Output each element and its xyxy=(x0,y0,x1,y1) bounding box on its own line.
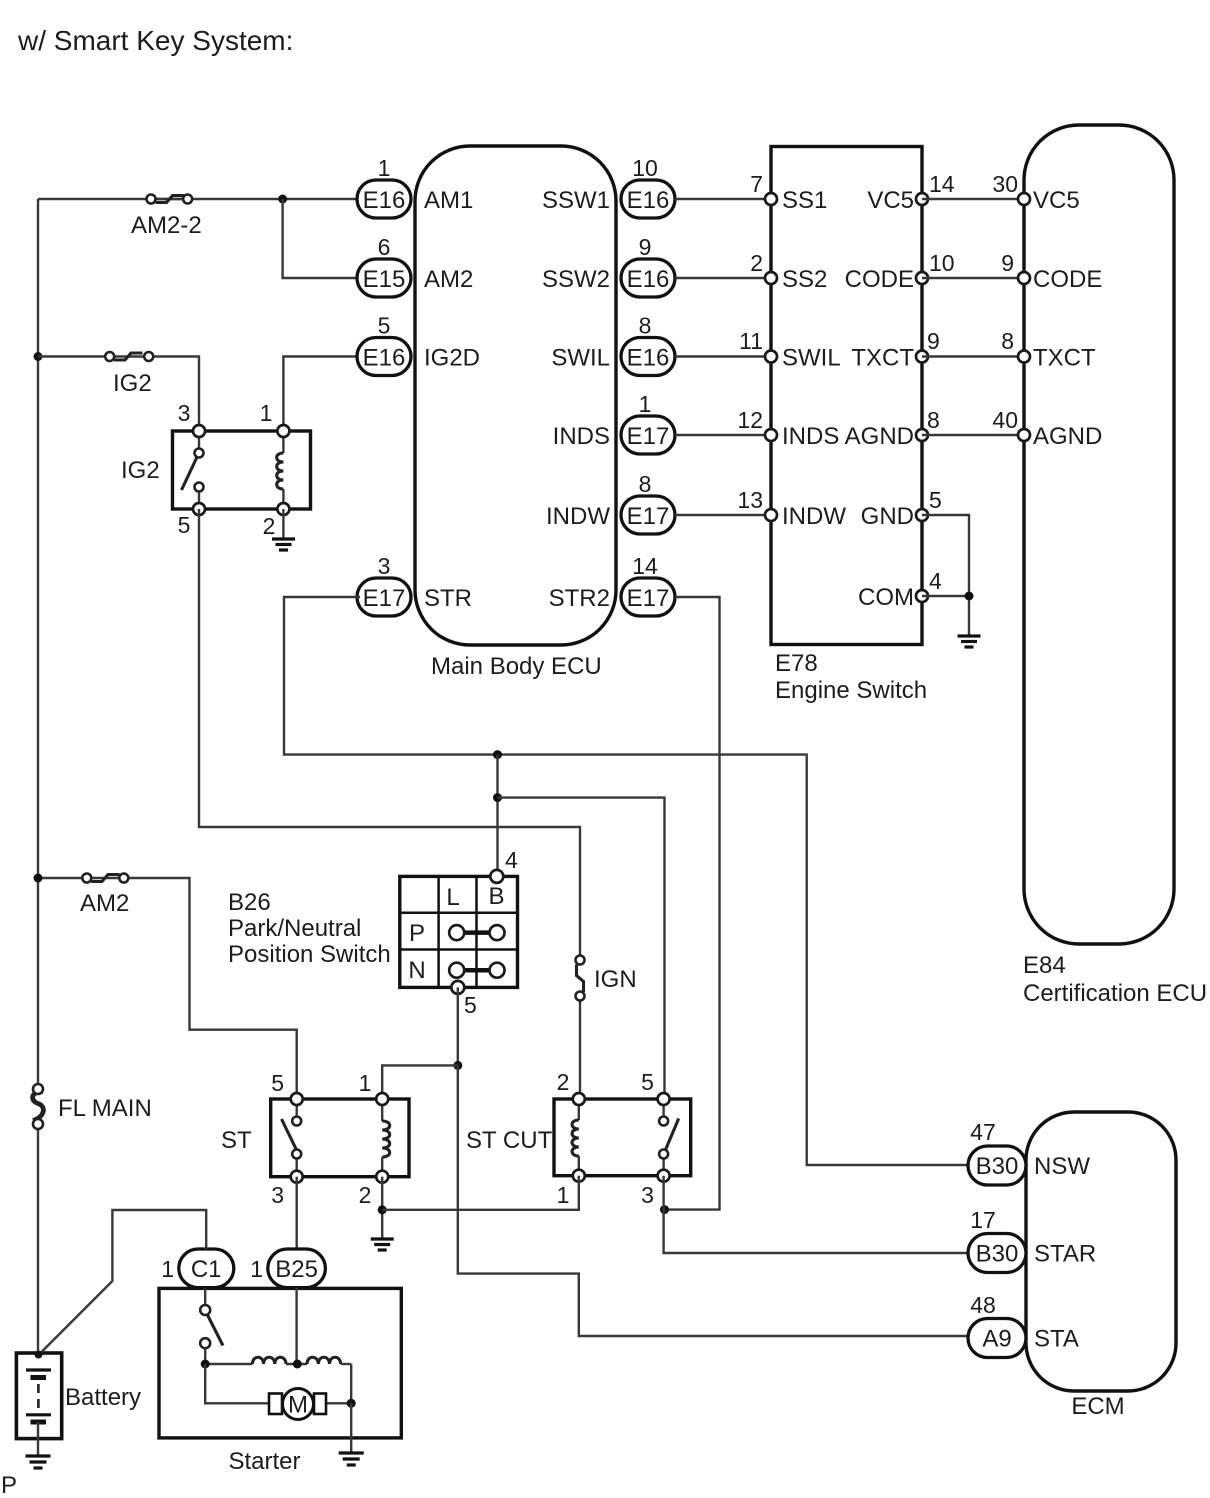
svg-text:5: 5 xyxy=(641,1069,654,1095)
svg-text:2: 2 xyxy=(263,513,276,539)
wire ST CUT pin1 to ground junction xyxy=(382,1176,579,1210)
svg-text:GND: GND xyxy=(861,503,914,530)
svg-text:3: 3 xyxy=(641,1182,654,1208)
wire B26 pin5 junction xyxy=(457,987,459,1065)
wire STR2 to ST CUT pin 3 xyxy=(665,597,720,1210)
svg-text:1: 1 xyxy=(161,1256,174,1282)
svg-text:M: M xyxy=(288,1392,308,1419)
svg-text:FL MAIN: FL MAIN xyxy=(58,1095,152,1122)
connector B30 pin 17 (STAR) xyxy=(968,1207,1096,1273)
fuse IG2 xyxy=(105,352,153,397)
wire INDW to INDW xyxy=(675,514,771,516)
svg-text:14: 14 xyxy=(632,553,658,579)
svg-text:B30: B30 xyxy=(976,1241,1019,1268)
svg-text:9: 9 xyxy=(1001,250,1014,276)
E78 pin 12 INDS xyxy=(737,407,839,450)
node B25/coil junction xyxy=(293,1360,302,1369)
svg-text:48: 48 xyxy=(970,1292,996,1318)
svg-text:5: 5 xyxy=(464,992,477,1018)
E78 pin 7 SS1 xyxy=(750,171,827,214)
svg-text:1: 1 xyxy=(250,1256,263,1282)
svg-text:1: 1 xyxy=(359,1070,372,1096)
svg-text:9: 9 xyxy=(927,328,940,354)
relay IG2 switch xyxy=(182,431,204,509)
wire ST pin3 to starter B25 xyxy=(296,1177,298,1250)
svg-text:E16: E16 xyxy=(627,266,670,293)
svg-text:ST CUT: ST CUT xyxy=(466,1127,553,1154)
ground IG2 relay xyxy=(272,539,295,550)
wire IG2 coil to ground xyxy=(282,509,284,538)
svg-text:TXCT: TXCT xyxy=(1033,345,1096,372)
wire motor right xyxy=(326,1402,351,1404)
wire IG2 fuse feed xyxy=(38,357,199,432)
svg-text:10: 10 xyxy=(929,250,955,276)
svg-text:E17: E17 xyxy=(627,423,670,450)
svg-text:5: 5 xyxy=(929,487,942,513)
svg-text:3: 3 xyxy=(378,553,391,579)
svg-text:INDS: INDS xyxy=(782,423,839,450)
node AM2 fuse tap xyxy=(34,874,43,883)
svg-text:8: 8 xyxy=(927,407,940,433)
svg-text:E17: E17 xyxy=(363,585,406,612)
svg-text:Engine Switch: Engine Switch xyxy=(775,677,927,704)
relay ST CUT coil xyxy=(572,1099,579,1176)
svg-text:Starter: Starter xyxy=(228,1448,300,1475)
svg-text:E15: E15 xyxy=(363,266,406,293)
wire TXCT to E84 xyxy=(922,328,1024,357)
svg-text:E17: E17 xyxy=(627,503,670,530)
ground starter xyxy=(339,1453,364,1465)
svg-text:E16: E16 xyxy=(627,345,670,372)
svg-text:INDW: INDW xyxy=(546,503,610,530)
svg-text:STR2: STR2 xyxy=(549,585,610,612)
svg-text:CODE: CODE xyxy=(845,266,914,293)
E84 pin 30 VC5 xyxy=(1018,187,1080,214)
svg-text:STR: STR xyxy=(424,585,472,612)
svg-text:2: 2 xyxy=(557,1069,570,1095)
wire GND to ground xyxy=(922,515,969,636)
svg-text:COM: COM xyxy=(858,584,914,611)
connector E17 pin 1 (INDS) xyxy=(553,391,675,454)
E78 pin 4 COM xyxy=(858,568,942,611)
svg-text:IG2: IG2 xyxy=(113,370,152,397)
node STR2/ST CUT pin3 junction xyxy=(660,1205,669,1214)
svg-text:Position Switch: Position Switch xyxy=(228,941,391,968)
E78 pin 14 VC5 xyxy=(867,171,954,214)
connector E16 pin 8 (SWIL) xyxy=(551,313,675,376)
wire AM2 to ST pin 5 xyxy=(38,878,297,1099)
svg-text:13: 13 xyxy=(737,487,763,513)
svg-text:1: 1 xyxy=(639,391,652,417)
svg-text:AM1: AM1 xyxy=(424,187,473,214)
svg-text:47: 47 xyxy=(970,1119,996,1145)
wire COM to ground xyxy=(922,595,969,597)
relay ST CUT pins xyxy=(573,1093,670,1182)
node COM/GND junction xyxy=(965,592,974,601)
svg-text:Certification ECU: Certification ECU xyxy=(1023,980,1207,1007)
E84 pin 8 TXCT xyxy=(1018,345,1096,372)
svg-text:B25: B25 xyxy=(275,1256,318,1283)
Main Body ECU U1 xyxy=(415,146,616,680)
wire AGND to E84 xyxy=(922,407,1024,435)
svg-text:14: 14 xyxy=(929,171,955,197)
svg-text:VC5: VC5 xyxy=(1033,187,1080,214)
wire AM2 branch xyxy=(283,199,360,278)
wire STR branch to B26 pin 4 xyxy=(496,755,498,877)
certification ECU E84 xyxy=(1023,125,1207,1007)
svg-text:ST: ST xyxy=(221,1127,252,1154)
relay ST xyxy=(221,1070,409,1208)
svg-text:E16: E16 xyxy=(363,345,406,372)
svg-text:NSW: NSW xyxy=(1034,1153,1090,1180)
svg-text:Battery: Battery xyxy=(65,1384,141,1411)
ground engine switch xyxy=(958,636,981,647)
svg-text:SWIL: SWIL xyxy=(551,345,610,372)
connector E16 pin 1 (AM1) xyxy=(357,155,473,218)
ECM xyxy=(1026,1112,1176,1420)
svg-text:8: 8 xyxy=(639,313,652,339)
svg-text:17: 17 xyxy=(970,1207,996,1233)
svg-text:8: 8 xyxy=(639,471,652,497)
connector A9 pin 48 (STA) xyxy=(968,1292,1079,1358)
svg-text:C1: C1 xyxy=(191,1256,222,1283)
svg-text:N: N xyxy=(408,957,425,984)
node AM1/AM2 junction xyxy=(278,195,287,204)
svg-text:E84: E84 xyxy=(1023,952,1066,979)
wire SSW1 to SS1 xyxy=(675,198,771,200)
ground ST relay xyxy=(371,1239,394,1250)
B26 pin 5 xyxy=(451,981,476,1018)
connector B25 pin 1 xyxy=(250,1249,325,1288)
svg-text:E17: E17 xyxy=(627,585,670,612)
connector E16 pin 9 (SSW2) xyxy=(542,234,675,297)
fuse AM2 xyxy=(80,874,129,918)
relay ST pins xyxy=(291,1093,389,1183)
node IG2 fuse tap xyxy=(34,352,43,361)
svg-text:E16: E16 xyxy=(627,187,670,214)
svg-text:w/ Smart Key System:: w/ Smart Key System: xyxy=(17,25,293,56)
svg-text:3: 3 xyxy=(178,400,191,426)
svg-text:9: 9 xyxy=(639,234,652,260)
svg-text:IG2: IG2 xyxy=(121,457,160,484)
node motor ground junction xyxy=(347,1399,356,1408)
wire C1 to battery xyxy=(39,1210,206,1355)
svg-text:5: 5 xyxy=(271,1070,284,1096)
E84 pin 40 AGND xyxy=(1018,423,1102,450)
connector C1 pin 1 xyxy=(161,1249,234,1288)
fusible link FL MAIN xyxy=(33,1084,152,1129)
svg-text:30: 30 xyxy=(992,171,1018,197)
svg-text:Main Body ECU: Main Body ECU xyxy=(431,653,602,680)
node starter switch/coil junction xyxy=(201,1360,210,1369)
svg-text:VC5: VC5 xyxy=(867,187,914,214)
wire branch to ST CUT pin 5 xyxy=(498,798,665,1099)
starter xyxy=(159,1288,401,1475)
svg-text:P: P xyxy=(409,920,425,947)
connector E17 pin 3 (STR) xyxy=(357,553,472,616)
svg-text:6: 6 xyxy=(378,234,391,260)
svg-text:11: 11 xyxy=(739,328,763,354)
wire IG2 pin5 to IGN fuse xyxy=(199,509,580,956)
svg-text:STA: STA xyxy=(1034,1326,1079,1353)
svg-text:7: 7 xyxy=(750,171,763,197)
wire AM1 feed xyxy=(38,198,360,200)
svg-text:E16: E16 xyxy=(363,187,406,214)
E78 pin 5 GND xyxy=(861,487,942,530)
E78 pin 11 SWIL xyxy=(739,328,841,372)
park/neutral position switch B26 xyxy=(228,876,518,987)
connector E15 pin 6 (AM2) xyxy=(357,234,473,297)
relay IG2 coil xyxy=(277,431,284,509)
wire INDS to INDS xyxy=(675,434,771,436)
wire B25 into starter xyxy=(295,1288,297,1364)
svg-text:12: 12 xyxy=(737,407,763,433)
node ST CUT branch xyxy=(493,793,502,802)
B26 pin 4 xyxy=(490,847,518,883)
relay ST CUT switch xyxy=(659,1099,679,1176)
wire coil2 to motor right xyxy=(350,1364,352,1403)
wire battery positive rail xyxy=(37,199,39,1085)
wire STR to NSW xyxy=(284,597,968,1165)
svg-text:IGN: IGN xyxy=(594,966,637,993)
svg-text:L: L xyxy=(446,884,459,911)
svg-text:AM2-2: AM2-2 xyxy=(131,212,202,239)
svg-text:3: 3 xyxy=(271,1182,284,1208)
relay ST CUT xyxy=(466,1069,691,1208)
svg-text:INDW: INDW xyxy=(782,503,846,530)
connector E16 pin 10 (SSW1) xyxy=(542,155,675,218)
svg-text:A9: A9 xyxy=(982,1326,1011,1353)
svg-text:SSW2: SSW2 xyxy=(542,266,610,293)
wire branch to STA xyxy=(458,1065,968,1336)
svg-text:2: 2 xyxy=(359,1182,372,1208)
svg-text:1: 1 xyxy=(557,1182,570,1208)
svg-text:4: 4 xyxy=(929,568,942,594)
svg-text:CODE: CODE xyxy=(1033,266,1102,293)
E78 pin 9 TXCT xyxy=(851,328,939,372)
wire CODE to E84 xyxy=(922,250,1024,278)
svg-text:E78: E78 xyxy=(775,650,818,677)
relay ST coil xyxy=(382,1099,390,1177)
ground battery xyxy=(26,1456,51,1468)
connector E17 pin 8 (INDW) xyxy=(546,471,675,534)
node relay ground junction xyxy=(378,1205,387,1214)
svg-text:8: 8 xyxy=(1001,328,1014,354)
svg-text:1: 1 xyxy=(378,155,391,181)
wire SSW2 to SS2 xyxy=(675,277,771,279)
svg-text:SS1: SS1 xyxy=(782,187,827,214)
battery xyxy=(16,1353,141,1455)
relay IG2 pins xyxy=(193,425,289,515)
relay IG2 xyxy=(121,400,311,539)
fuse AM2-2 xyxy=(131,195,202,240)
svg-text:40: 40 xyxy=(992,407,1018,433)
wire IG2D branch xyxy=(283,357,360,432)
svg-text:SWIL: SWIL xyxy=(782,345,841,372)
wire motor to ground xyxy=(350,1403,352,1452)
E78 pin 10 CODE xyxy=(845,250,955,293)
wire ST pin2 to ground xyxy=(381,1177,383,1238)
starter solenoid coil 2 xyxy=(286,1357,351,1364)
svg-text:SS2: SS2 xyxy=(782,266,827,293)
node STR branch xyxy=(493,750,502,759)
E78 pin 2 SS2 xyxy=(750,250,827,293)
svg-text:B: B xyxy=(488,883,504,910)
svg-text:10: 10 xyxy=(632,155,658,181)
wire VC5 to E84 xyxy=(922,171,1024,199)
svg-text:2: 2 xyxy=(750,250,763,276)
relay ST switch xyxy=(282,1099,302,1177)
svg-text:4: 4 xyxy=(505,847,518,873)
svg-text:5: 5 xyxy=(378,313,391,339)
B26 P contact xyxy=(449,925,504,940)
connector B30 pin 47 (NSW) xyxy=(968,1119,1090,1185)
E78 pin 13 INDW xyxy=(737,487,846,530)
connector E16 pin 5 (IG2D) xyxy=(357,313,480,376)
svg-text:AGND: AGND xyxy=(1033,423,1102,450)
svg-text:AGND: AGND xyxy=(845,423,914,450)
svg-text:AM2: AM2 xyxy=(80,890,129,917)
svg-text:1: 1 xyxy=(260,400,273,426)
svg-text:ECM: ECM xyxy=(1071,1393,1124,1420)
svg-text:STAR: STAR xyxy=(1034,1241,1096,1268)
connector E17 pin 14 (STR2) xyxy=(549,553,675,616)
svg-text:5: 5 xyxy=(178,512,191,538)
svg-text:AM2: AM2 xyxy=(424,266,473,293)
wire branch to ST pin 1 xyxy=(382,1065,458,1099)
svg-text:TXCT: TXCT xyxy=(851,345,914,372)
wire switch to motor left xyxy=(205,1364,269,1403)
svg-text:P: P xyxy=(1,1472,17,1498)
wire SWIL to SWIL xyxy=(675,355,771,357)
svg-text:INDS: INDS xyxy=(553,423,610,450)
svg-text:B30: B30 xyxy=(976,1153,1019,1180)
svg-text:IG2D: IG2D xyxy=(424,345,480,372)
node B26 pin5 branch xyxy=(453,1061,462,1070)
E84 pin 9 CODE xyxy=(1018,266,1102,293)
wire ST CUT pin3 to STAR xyxy=(664,1176,968,1253)
starter solenoid coil 1 xyxy=(205,1357,286,1364)
fuse IGN xyxy=(576,956,637,1001)
motor M starter xyxy=(269,1389,326,1420)
svg-text:Park/Neutral: Park/Neutral xyxy=(228,915,361,942)
B26 N contact xyxy=(449,963,504,978)
engine switch E78 xyxy=(771,147,927,705)
starter switch from C1 xyxy=(200,1288,223,1364)
node battery terminal xyxy=(35,1351,43,1359)
svg-text:SSW1: SSW1 xyxy=(542,187,610,214)
E78 pin 8 AGND xyxy=(845,407,940,450)
svg-text:B26: B26 xyxy=(228,889,271,916)
